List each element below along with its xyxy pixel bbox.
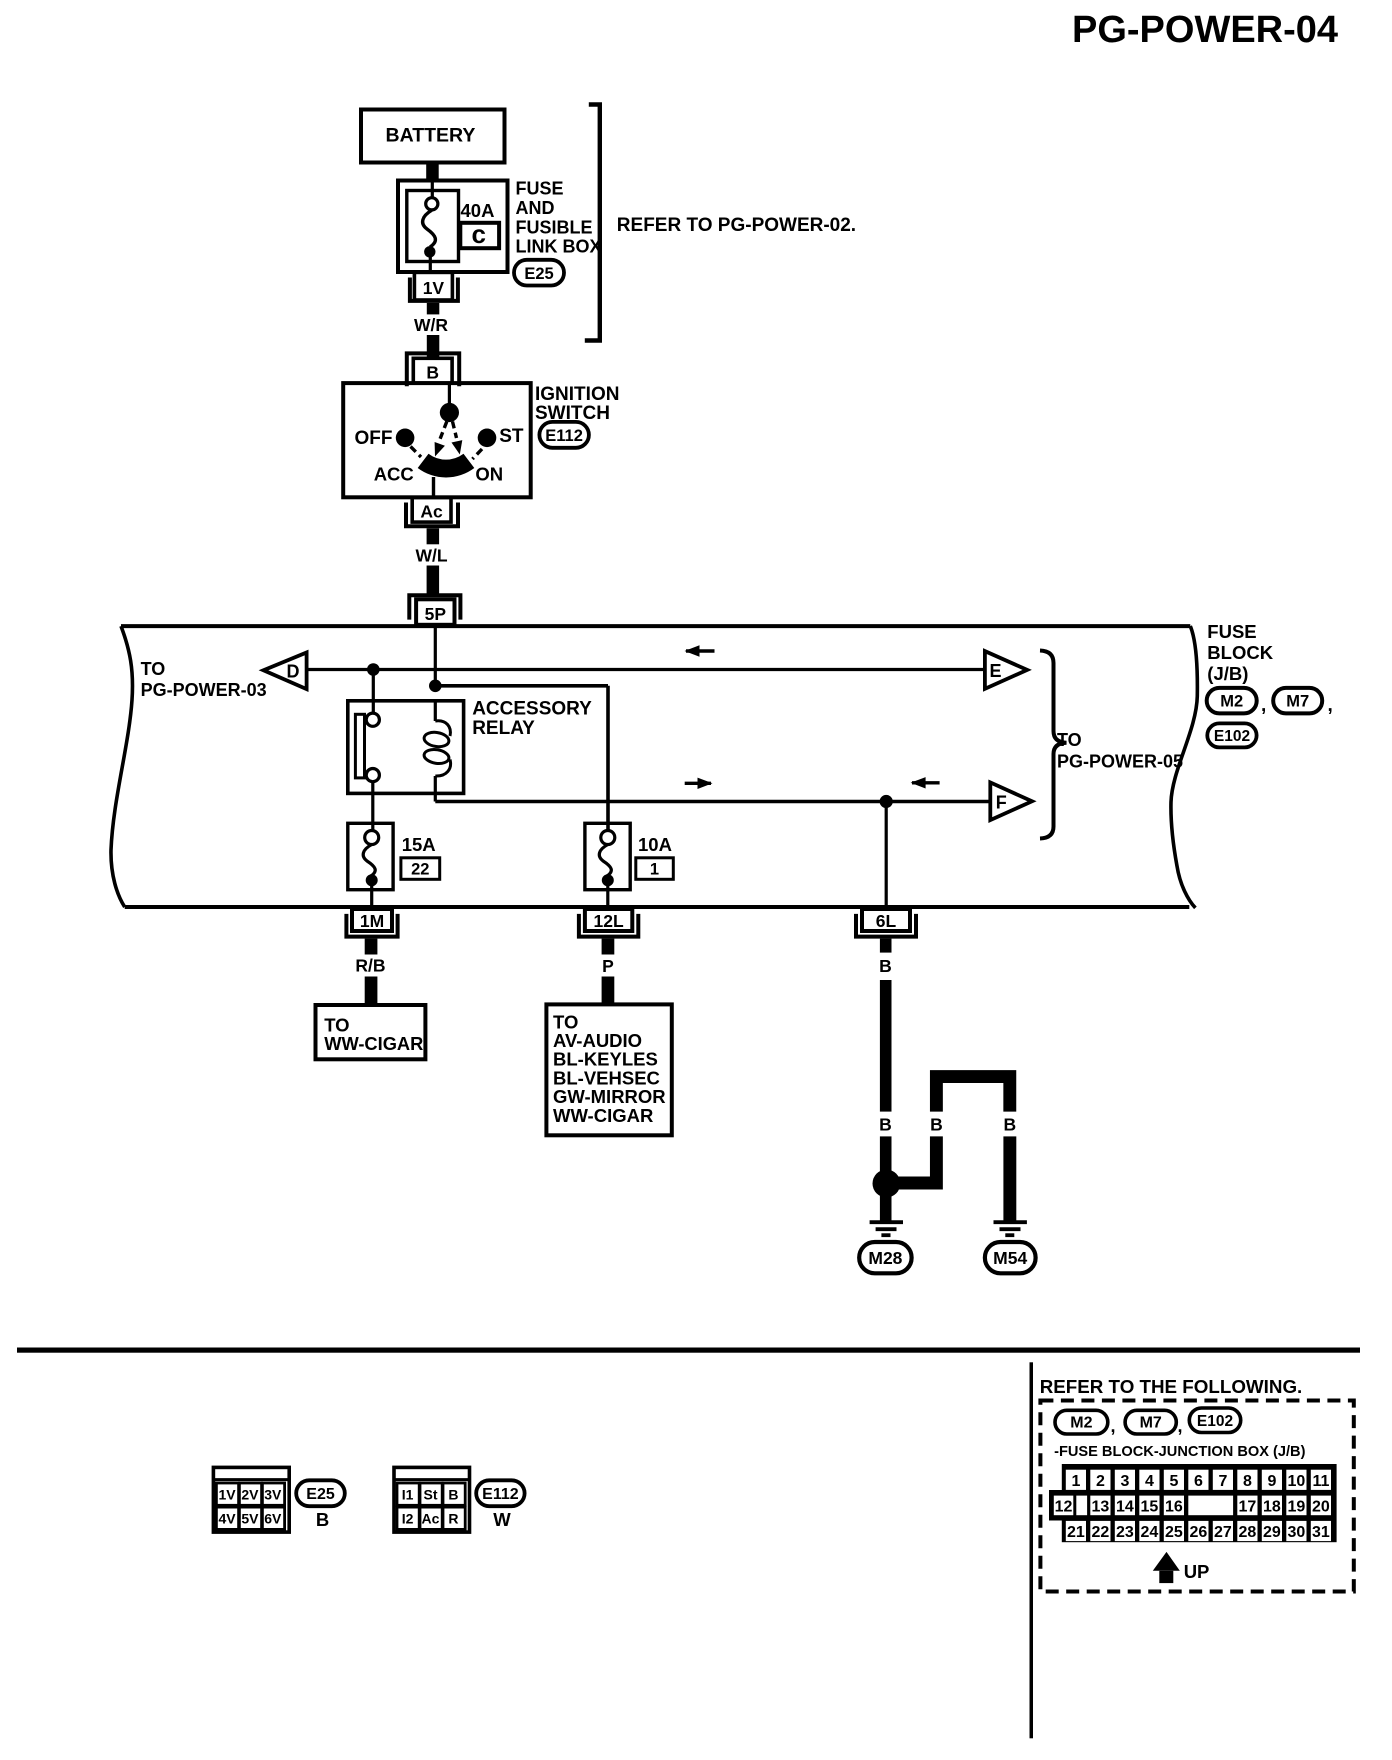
svg-text:c: c (472, 219, 486, 249)
svg-text:6: 6 (1194, 1473, 1203, 1490)
svg-text:28: 28 (1239, 1524, 1257, 1541)
svg-text:17: 17 (1239, 1499, 1257, 1516)
svg-text:2V: 2V (241, 1486, 259, 1502)
svg-text:E112: E112 (545, 427, 583, 445)
svg-text:E25: E25 (524, 265, 553, 283)
svg-text:19: 19 (1288, 1499, 1306, 1516)
svg-text:21: 21 (1067, 1524, 1085, 1541)
svg-text:E102: E102 (1197, 1413, 1233, 1430)
svg-text:1: 1 (650, 861, 659, 879)
svg-text:(J/B): (J/B) (1207, 663, 1248, 684)
svg-text:3: 3 (1120, 1473, 1129, 1490)
svg-text:ON: ON (475, 464, 503, 485)
svg-text:IGNITION: IGNITION (535, 384, 619, 405)
svg-text:11: 11 (1312, 1473, 1329, 1490)
svg-text:22: 22 (1092, 1524, 1110, 1541)
svg-text:Ac: Ac (420, 501, 443, 521)
svg-text:P: P (602, 956, 614, 976)
svg-text:12: 12 (1055, 1499, 1073, 1516)
svg-text:,: , (1261, 695, 1266, 716)
svg-text:24: 24 (1141, 1524, 1159, 1541)
svg-text:1M: 1M (360, 911, 384, 931)
svg-text:1V: 1V (218, 1486, 236, 1502)
svg-text:40A: 40A (461, 200, 495, 221)
svg-text:8: 8 (1243, 1473, 1252, 1490)
svg-text:E112: E112 (482, 1486, 519, 1503)
svg-text:B: B (426, 362, 439, 382)
svg-text:FUSE: FUSE (516, 179, 564, 199)
svg-text:WW-CIGAR: WW-CIGAR (553, 1105, 653, 1126)
svg-text:15A: 15A (402, 834, 436, 855)
svg-text:M2: M2 (1070, 1415, 1092, 1432)
svg-text:W: W (493, 1509, 511, 1530)
svg-text:ACC: ACC (374, 464, 414, 485)
svg-text:UP: UP (1184, 1561, 1210, 1582)
svg-text:M54: M54 (993, 1248, 1027, 1268)
svg-text:R/B: R/B (355, 956, 385, 976)
svg-text:1: 1 (1071, 1473, 1080, 1490)
svg-text:LINK BOX: LINK BOX (516, 237, 602, 257)
svg-text:FUSE: FUSE (1207, 621, 1256, 642)
svg-text:Ac: Ac (422, 1511, 440, 1527)
svg-text:E: E (990, 661, 1002, 681)
svg-text:30: 30 (1288, 1524, 1306, 1541)
svg-text:,: , (1328, 695, 1333, 716)
svg-text:PG-POWER-04: PG-POWER-04 (1072, 9, 1338, 51)
svg-text:16: 16 (1165, 1499, 1183, 1516)
svg-text:5: 5 (1169, 1473, 1178, 1490)
svg-text:FUSIBLE: FUSIBLE (516, 217, 593, 237)
svg-text:WW-CIGAR: WW-CIGAR (324, 1033, 423, 1054)
svg-text:M7: M7 (1140, 1415, 1162, 1432)
svg-text:I1: I1 (402, 1486, 414, 1502)
svg-text:M28: M28 (868, 1248, 902, 1268)
svg-text:15: 15 (1141, 1499, 1159, 1516)
svg-text:12L: 12L (594, 911, 624, 931)
svg-text:,: , (1178, 1416, 1183, 1436)
svg-text:,: , (1111, 1416, 1116, 1436)
svg-text:10A: 10A (638, 834, 672, 855)
svg-text:3V: 3V (264, 1486, 282, 1502)
svg-text:20: 20 (1312, 1499, 1330, 1516)
svg-text:R: R (448, 1511, 458, 1527)
svg-text:D: D (287, 661, 300, 681)
svg-text:I2: I2 (402, 1511, 414, 1527)
svg-text:OFF: OFF (355, 428, 393, 449)
svg-text:B: B (316, 1509, 329, 1530)
svg-text:M7: M7 (1286, 693, 1309, 711)
svg-text:B: B (930, 1115, 943, 1135)
svg-text:PG-POWER-03: PG-POWER-03 (141, 680, 267, 700)
svg-text:PG-POWER-05: PG-POWER-05 (1057, 752, 1183, 772)
svg-text:2: 2 (1096, 1473, 1105, 1490)
svg-text:31: 31 (1312, 1524, 1330, 1541)
svg-text:E25: E25 (306, 1486, 335, 1503)
svg-text:TO: TO (1057, 730, 1082, 750)
svg-text:E102: E102 (1214, 728, 1250, 745)
svg-text:25: 25 (1165, 1524, 1183, 1541)
svg-text:REFER TO THE FOLLOWING.: REFER TO THE FOLLOWING. (1040, 1376, 1303, 1397)
svg-text:BLOCK: BLOCK (1207, 642, 1273, 663)
svg-text:TO: TO (141, 659, 166, 679)
svg-text:22: 22 (411, 861, 429, 879)
svg-text:18: 18 (1263, 1499, 1281, 1516)
svg-text:10: 10 (1288, 1473, 1306, 1490)
svg-text:7: 7 (1218, 1473, 1227, 1490)
svg-text:5P: 5P (425, 604, 447, 624)
svg-text:F: F (996, 792, 1007, 812)
svg-text:ST: ST (499, 426, 524, 447)
svg-text:9: 9 (1267, 1473, 1276, 1490)
svg-text:-FUSE BLOCK-JUNCTION BOX (J/B): -FUSE BLOCK-JUNCTION BOX (J/B) (1054, 1444, 1305, 1460)
svg-text:23: 23 (1116, 1524, 1134, 1541)
svg-text:B: B (1003, 1115, 1016, 1135)
svg-text:AND: AND (516, 198, 555, 218)
svg-text:M2: M2 (1220, 693, 1243, 711)
svg-text:RELAY: RELAY (472, 718, 535, 739)
svg-text:14: 14 (1116, 1499, 1134, 1516)
svg-text:B: B (448, 1486, 458, 1502)
svg-text:29: 29 (1263, 1524, 1281, 1541)
svg-text:13: 13 (1092, 1499, 1110, 1516)
svg-text:St: St (424, 1486, 438, 1502)
svg-text:B: B (879, 1115, 892, 1135)
svg-text:W/R: W/R (414, 315, 448, 335)
svg-text:6L: 6L (876, 911, 897, 931)
svg-text:REFER TO PG-POWER-02.: REFER TO PG-POWER-02. (617, 215, 856, 236)
svg-text:4: 4 (1145, 1473, 1154, 1490)
svg-text:5V: 5V (241, 1511, 259, 1527)
svg-text:B: B (879, 956, 892, 976)
svg-text:6V: 6V (264, 1511, 282, 1527)
svg-text:26: 26 (1190, 1524, 1208, 1541)
svg-text:1V: 1V (423, 278, 445, 298)
svg-text:4V: 4V (218, 1511, 236, 1527)
svg-text:27: 27 (1214, 1524, 1232, 1541)
svg-text:W/L: W/L (415, 546, 447, 566)
svg-text:BATTERY: BATTERY (386, 125, 476, 147)
svg-text:ACCESSORY: ACCESSORY (472, 699, 592, 720)
